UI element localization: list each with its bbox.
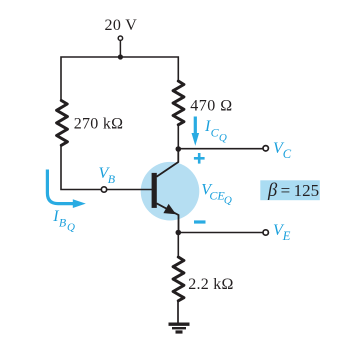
- wire to ground: [177, 301, 179, 323]
- resistor 470 Ohm: [173, 81, 184, 125]
- minus sign: [194, 220, 206, 223]
- node VC terminal: [263, 146, 268, 151]
- transistor Q1 body highlight: [141, 162, 200, 221]
- svg-text:2.2 kΩ: 2.2 kΩ: [188, 276, 233, 293]
- transistor Q1 emitter lead: [157, 203, 179, 232]
- plus sign: [194, 153, 205, 164]
- wire terminal to top rail: [119, 41, 121, 56]
- wire left branch lower and base wire: [61, 145, 152, 190]
- beta box: [260, 180, 320, 201]
- resistor 270 kOhm: [57, 101, 68, 146]
- svg-text:270 kΩ: 270 kΩ: [74, 115, 124, 132]
- wire top rail with left and right drops: [61, 57, 178, 101]
- wire right branch to collector node: [177, 125, 179, 150]
- node VB terminal: [101, 187, 106, 192]
- svg-text:20 V: 20 V: [105, 17, 138, 34]
- wire collector to VC: [178, 148, 262, 150]
- transistor Q1 base bar: [152, 173, 157, 208]
- transistor Q1 collector lead: [157, 149, 179, 177]
- supply terminal: [118, 36, 122, 40]
- svg-text:β = 125: β = 125: [267, 181, 319, 201]
- current arrow ICQ: [192, 117, 200, 146]
- current arrow IBQ: [47, 170, 85, 209]
- node collector junction: [176, 146, 182, 152]
- transistor Q1 emitter arrow: [163, 204, 176, 214]
- node emitter junction: [176, 230, 182, 236]
- ground: [169, 324, 190, 332]
- svg-text:470 Ω: 470 Ω: [190, 98, 232, 115]
- wire emitter to VE: [178, 232, 262, 234]
- node VE terminal: [263, 230, 268, 235]
- resistor 2.2 kOhm: [173, 257, 184, 301]
- wire emitter branch upper: [177, 233, 179, 258]
- node supply junction: [118, 54, 123, 59]
